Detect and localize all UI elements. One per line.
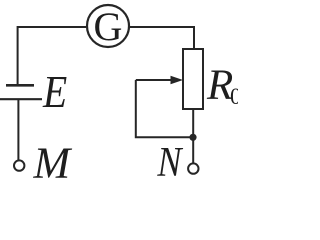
svg-text:G: G <box>94 4 123 49</box>
wiper arrowhead <box>171 76 184 84</box>
wire rheostat bottom to N <box>192 109 194 164</box>
svg-text:M: M <box>33 139 73 181</box>
wire galvanometer to rheostat <box>130 27 194 49</box>
svg-text:E: E <box>42 68 67 118</box>
galvanometer G circle <box>87 5 129 47</box>
wire top-left horizontal <box>18 27 86 85</box>
svg-text:N: N <box>156 140 183 180</box>
terminal N circle <box>188 163 198 173</box>
label E <box>42 68 67 118</box>
label N <box>156 140 183 186</box>
wiper arm <box>136 79 174 81</box>
wire battery to M <box>17 99 19 161</box>
battery E plate short <box>6 84 34 87</box>
rheostat R0 body <box>183 49 203 109</box>
wire wiper loop <box>136 80 193 137</box>
svg-text:0: 0 <box>230 84 238 109</box>
junction node <box>189 134 196 141</box>
battery E plate long <box>0 98 42 100</box>
terminal M circle <box>14 160 24 170</box>
